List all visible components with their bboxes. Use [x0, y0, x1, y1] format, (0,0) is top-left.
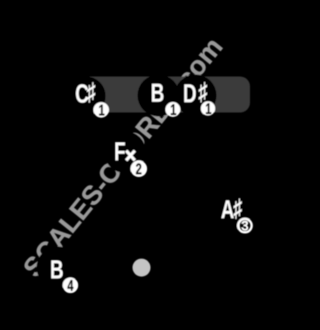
finger 1 disc under C#: [93, 102, 109, 118]
label D: [184, 84, 195, 102]
label B (bar): [152, 84, 163, 102]
sharp of C#: [87, 82, 95, 102]
digit 4 under B: [68, 280, 74, 291]
note head B (bar): [138, 75, 180, 117]
double sharp of Fx: [126, 151, 135, 161]
fret marker dot: [133, 259, 151, 277]
digit 2 under Fx: [136, 163, 141, 174]
watermark SCALES-CHORDS.com: [22, 36, 223, 278]
digit 1 under B: [171, 104, 176, 115]
label A: [221, 200, 234, 218]
sharp of A#: [234, 199, 242, 219]
finger 1 disc under D#: [201, 101, 215, 115]
barre (fret bar): [80, 77, 250, 113]
note head Fx: [104, 131, 146, 173]
finger 4 disc under B (low): [63, 278, 79, 294]
note head C#: [66, 76, 105, 115]
note head A#: [211, 189, 253, 231]
label B (low): [51, 261, 62, 279]
label F: [116, 143, 125, 161]
note head D#: [175, 75, 217, 117]
note head B (low): [37, 247, 79, 289]
sharp of D#: [199, 82, 207, 102]
finger 2 disc under Fx: [131, 160, 148, 177]
label C: [76, 84, 88, 103]
digit 3 under A#: [242, 221, 249, 231]
finger 3 ring under A#: [238, 219, 251, 232]
digit 1 under C#: [99, 105, 104, 116]
digit 1 under D#: [206, 103, 211, 114]
finger 1 disc under B: [165, 102, 180, 117]
